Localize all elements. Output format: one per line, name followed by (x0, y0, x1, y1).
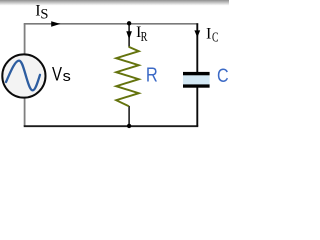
wire: resistor branch stubs (top and bottom) (128, 23, 130, 126)
svg-text:R: R (146, 63, 158, 86)
svg-text:I: I (206, 25, 211, 42)
current arrow IC (down, above capacitor) (194, 30, 200, 37)
svg-text:S: S (40, 6, 48, 22)
AC voltage source VS: sine waveform symbol (6, 61, 40, 91)
svg-text:C: C (212, 31, 219, 46)
junction dot: bottom node (resistor tap) (127, 124, 131, 128)
wire: top horizontal rail (net VS+ / node A) (24, 23, 199, 25)
resistor R: zigzag body (116, 47, 139, 107)
current arrow IR (down, above resistor) (126, 31, 132, 39)
svg-text:R: R (141, 30, 148, 45)
AC voltage source VS: circle body (2, 54, 45, 97)
svg-text:C: C (217, 65, 229, 87)
wire: left vertical, VS positive terminal to top rail (24, 24, 26, 55)
wire: bottom horizontal return rail (node B) (24, 125, 199, 127)
capacitor C: plates and dielectric (183, 75, 210, 84)
wire: right vertical capacitor branch (two stubs) (196, 23, 198, 126)
svg-text:V: V (52, 64, 62, 85)
junction dot: top node (resistor tap) (127, 21, 131, 25)
wire: left vertical, VS negative terminal to bottom rail (24, 97, 26, 126)
current arrow IS on top wire (51, 21, 60, 27)
svg-text:s: s (63, 69, 71, 85)
